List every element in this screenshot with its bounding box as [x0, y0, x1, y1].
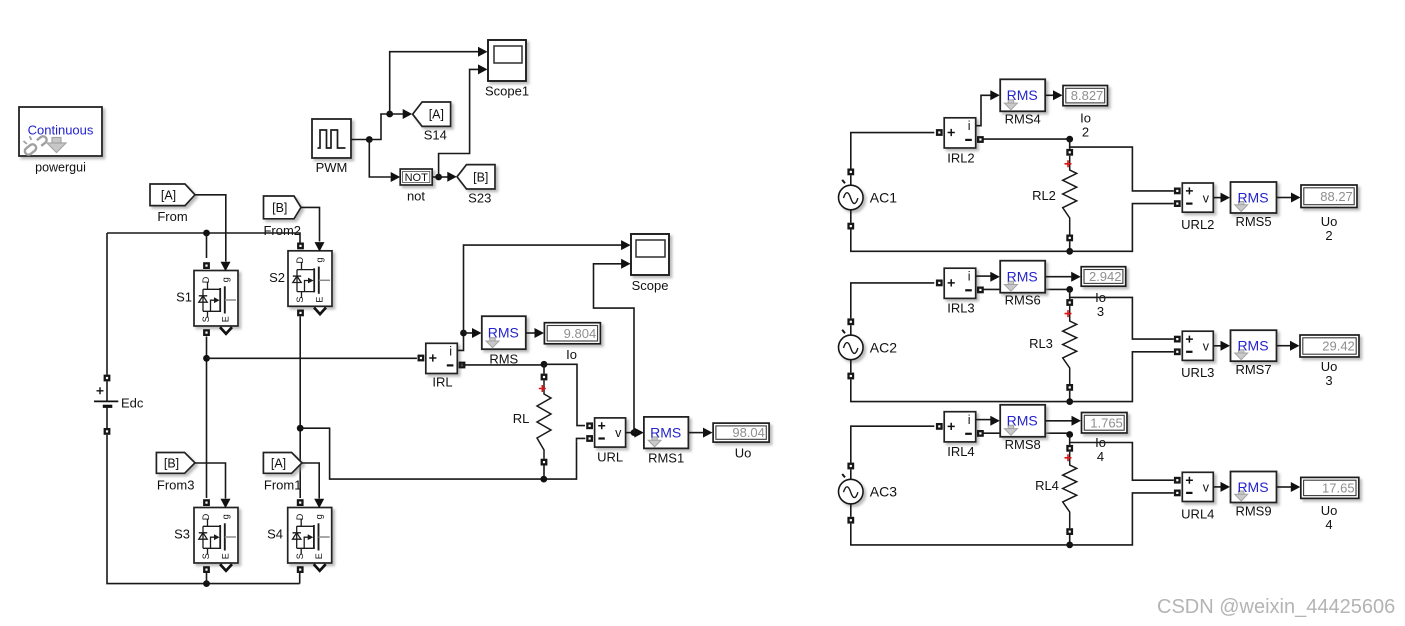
wire RMS output	[526, 332, 535, 334]
arrowhead into RMS	[472, 328, 482, 338]
svg-text:RMS9: RMS9	[1235, 504, 1271, 519]
wire RMS8 output	[1046, 420, 1072, 422]
arrowhead Scope1 input 2	[478, 64, 488, 74]
AC source AC2	[839, 335, 864, 360]
wire RL3 bottom stub	[1069, 391, 1071, 402]
svg-text:RMS6: RMS6	[1005, 293, 1041, 308]
wire AC1 top to IRL2 input	[851, 133, 935, 169]
svg-text:8.827: 8.827	[1071, 88, 1104, 103]
wire RL2 top to URL2 plus	[1070, 147, 1174, 191]
svg-text:S1: S1	[176, 290, 192, 305]
from tag From	[150, 184, 195, 206]
RMS block RMS9	[1231, 472, 1277, 503]
RMS block RMS1	[644, 417, 689, 449]
current measurement IRL2	[944, 118, 976, 148]
resistor RL2	[1063, 156, 1077, 235]
svg-text:v: v	[615, 426, 622, 440]
svg-text:9.804: 9.804	[564, 326, 597, 341]
display Io value 9.804	[544, 323, 600, 344]
junction RL4 bottom	[1066, 542, 1073, 549]
junction PWM output	[366, 136, 373, 143]
svg-text:IRL4: IRL4	[947, 444, 974, 459]
wire RMS7 output	[1277, 345, 1290, 347]
wire AC1 bottom loop	[851, 230, 1070, 252]
svg-text:Scope1: Scope1	[485, 84, 529, 99]
svg-text:88.27: 88.27	[1320, 189, 1353, 204]
arrowhead into S23	[447, 172, 457, 182]
svg-text:E: E	[220, 553, 230, 559]
pulse generator PWM	[312, 119, 351, 158]
svg-text:RMS: RMS	[1007, 413, 1038, 429]
wire RL4 top to URL4 plus	[1070, 443, 1174, 481]
wire AC3 top to IRL4 input	[851, 426, 935, 462]
RMS block RMS5	[1231, 182, 1277, 213]
svg-text:Continuous: Continuous	[28, 123, 94, 138]
wire junction to goto S14	[369, 114, 403, 140]
wire RMS9 output	[1277, 486, 1291, 488]
wire RL4 bottom to URL4 minus	[1070, 493, 1174, 545]
MOSFET S1	[194, 271, 238, 327]
from tag From2	[264, 196, 302, 219]
svg-text:RMS: RMS	[489, 352, 518, 367]
port Edc bottom	[104, 428, 111, 435]
arrowhead into RMS5	[1221, 193, 1231, 203]
scope Scope	[631, 234, 669, 275]
svg-text:2.942: 2.942	[1089, 269, 1122, 284]
RMS block RMS8	[1000, 405, 1045, 437]
wire IRL i output	[457, 333, 463, 350]
RMS block RMS	[482, 316, 526, 349]
wire URL junction to Scope input 2	[594, 264, 635, 433]
wire junction to Scope1 input 2	[439, 69, 479, 177]
svg-text:17.65: 17.65	[1322, 481, 1355, 496]
resistor RL4	[1063, 452, 1077, 529]
wire midpoint A to IRL input	[207, 357, 417, 359]
display Uo value 98.04	[713, 423, 769, 442]
wire junction into RMS1	[634, 432, 635, 434]
RMS block RMS6	[1000, 261, 1045, 293]
wire junction to goto S23	[439, 176, 448, 178]
current measurement IRL3	[944, 268, 976, 298]
wire junction to Scope1 input 1	[390, 52, 479, 114]
arrowhead into display Uo 2	[1291, 193, 1301, 203]
arrowhead into NOT	[391, 172, 401, 182]
wire IRL3 i output to RMS6	[976, 275, 991, 277]
wire From2 to S2 gate	[301, 207, 320, 241]
wire URL4 output	[1214, 486, 1221, 488]
wire RL3 bottom to URL3 minus	[1070, 352, 1174, 402]
svg-text:S3: S3	[174, 527, 190, 542]
svg-text:NOT: NOT	[405, 172, 429, 184]
RMS block RMS4	[1000, 79, 1045, 111]
svg-text:RL: RL	[513, 411, 530, 426]
svg-text:v: v	[1203, 481, 1210, 495]
junction RL2 top	[1066, 136, 1073, 143]
wire bus down to S1 drain	[206, 233, 208, 258]
display Io value 2.942	[1081, 267, 1126, 287]
arrowhead into RMS1	[634, 428, 644, 438]
goto tag S23	[457, 165, 495, 189]
wire S1 source rail to S3 drain	[206, 337, 208, 499]
svg-text:[B]: [B]	[164, 456, 179, 470]
svg-text:E: E	[314, 297, 324, 303]
junction IRL i	[460, 330, 467, 337]
voltage measurement URL3	[1182, 331, 1213, 360]
svg-text:E: E	[314, 553, 324, 559]
svg-text:RL2: RL2	[1032, 188, 1056, 203]
AC source AC3	[839, 479, 864, 504]
svg-text:S: S	[295, 297, 305, 303]
wire URL3 output	[1214, 345, 1221, 347]
goto tag S14	[413, 102, 451, 126]
arrowhead into RMS9	[1221, 482, 1231, 492]
arrowhead into display Io	[535, 328, 545, 338]
wire AC2 bottom loop	[851, 379, 1070, 401]
voltage measurement URL	[595, 418, 626, 447]
svg-text:RMS5: RMS5	[1235, 214, 1271, 229]
scope Scope1	[488, 40, 526, 81]
logical operator NOT	[400, 169, 432, 185]
svg-text:3: 3	[1325, 373, 1332, 388]
arrowhead into display Io 3	[1071, 272, 1081, 282]
svg-text:S4: S4	[267, 527, 283, 542]
svg-text:i: i	[968, 119, 971, 133]
svg-text:IRL3: IRL3	[947, 301, 974, 316]
wire RL2 bottom stub	[1069, 241, 1071, 251]
wire RL4 bottom stub	[1069, 535, 1071, 545]
arrowhead into RMS8	[990, 416, 1000, 426]
svg-text:Uo: Uo	[735, 446, 752, 461]
resistor RL3	[1063, 306, 1077, 384]
wire midpoint B to load loop	[300, 428, 576, 479]
svg-text:RMS: RMS	[1007, 269, 1038, 285]
wire IRL4 i output to RMS8	[976, 419, 991, 421]
arrowhead into display Uo 4	[1291, 482, 1301, 492]
wire IRL minus to RL top	[461, 364, 544, 366]
wire IRL3 minus to RL3	[983, 288, 1069, 290]
display Uo value 17.65	[1301, 477, 1359, 498]
svg-text:RMS: RMS	[1237, 479, 1268, 495]
svg-text:URL: URL	[597, 450, 623, 465]
resistor RL	[537, 380, 551, 458]
svg-text:IRL2: IRL2	[947, 150, 974, 165]
display Uo value 88.27	[1301, 185, 1357, 208]
svg-text:g: g	[314, 257, 324, 262]
arrowhead Scope input 2	[621, 259, 631, 269]
svg-text:g: g	[314, 514, 324, 519]
svg-text:S23: S23	[468, 191, 491, 206]
svg-text:RMS: RMS	[1237, 338, 1268, 354]
arrowhead into display Uo	[703, 428, 713, 438]
wire From1 to S4 gate	[302, 463, 319, 499]
wire RMS1 output	[688, 432, 703, 434]
svg-text:URL2: URL2	[1181, 217, 1214, 232]
svg-text:S2: S2	[269, 270, 285, 285]
svg-text:D: D	[201, 276, 211, 283]
svg-text:[A]: [A]	[429, 108, 444, 122]
wire RMS4 output	[1046, 94, 1054, 96]
svg-text:powergui: powergui	[35, 161, 86, 175]
svg-text:RMS: RMS	[1237, 189, 1268, 205]
svg-text:RL4: RL4	[1035, 478, 1059, 493]
port Edc top	[104, 375, 111, 382]
current measurement IRL4	[944, 412, 976, 442]
display Io value 8.827	[1063, 86, 1108, 106]
wire AC2 top to IRL3 input	[851, 283, 935, 319]
arrowhead into display Uo 3	[1290, 341, 1300, 351]
junction NOT output	[435, 174, 442, 181]
arrowhead into RMS4	[990, 90, 1000, 100]
junction RL3 top	[1066, 286, 1073, 293]
arrowhead Scope1 input 1	[478, 47, 488, 57]
wire RL bottom to loop	[543, 466, 545, 480]
wire URL2 output	[1214, 197, 1221, 199]
wire PWM junction down to NOT	[369, 140, 391, 178]
svg-text:not: not	[407, 189, 425, 204]
junction RL4 top	[1066, 431, 1073, 438]
junction midpoint A	[203, 355, 210, 362]
wire RL2 top stub	[1069, 139, 1071, 149]
arrowhead into RMS6	[990, 272, 1000, 282]
svg-text:29.42: 29.42	[1322, 339, 1355, 354]
svg-text:CSDN @weixin_44425606: CSDN @weixin_44425606	[1157, 596, 1395, 618]
svg-text:4: 4	[1325, 517, 1332, 532]
svg-text:4: 4	[1097, 449, 1104, 464]
wire S3 source stub	[206, 572, 208, 584]
svg-text:RMS8: RMS8	[1005, 437, 1041, 452]
wire load loop to URL minus	[577, 438, 586, 441]
wire RMS6 output	[1046, 276, 1072, 278]
MOSFET S4	[288, 508, 332, 564]
junction RL2 bottom	[1066, 248, 1073, 255]
from tag From1	[263, 453, 302, 474]
MOSFET S3	[194, 508, 238, 564]
display Uo value 29.42	[1300, 335, 1359, 357]
svg-text:RMS4: RMS4	[1005, 111, 1041, 126]
junction top bus S1 branch	[203, 230, 210, 237]
voltage measurement URL4	[1182, 472, 1213, 501]
junction RL3 bottom	[1066, 398, 1073, 405]
junction S14 branch	[386, 111, 393, 118]
svg-text:2: 2	[1325, 228, 1332, 243]
wire RL junction to URL plus	[544, 364, 585, 425]
wire From3 to S3 gate	[195, 463, 226, 499]
wire PWM output to junction	[351, 139, 369, 141]
wire NOT output	[432, 176, 438, 178]
wire RMS5 output	[1277, 197, 1291, 199]
svg-text:Uo: Uo	[1321, 503, 1338, 518]
svg-text:S14: S14	[424, 128, 447, 143]
wire RL top junction down	[543, 364, 545, 373]
arrowhead into RMS7	[1221, 341, 1231, 351]
svg-text:D: D	[201, 513, 211, 520]
RMS block RMS7	[1231, 330, 1277, 361]
wire S4 source to bottom rail	[299, 572, 301, 584]
svg-text:RMS7: RMS7	[1235, 362, 1271, 377]
svg-text:From3: From3	[157, 478, 195, 493]
wire URL output	[626, 432, 634, 434]
svg-text:[B]: [B]	[473, 170, 488, 184]
wire IRL4 minus to RL4	[983, 432, 1069, 434]
svg-text:URL4: URL4	[1181, 506, 1214, 521]
svg-text:AC2: AC2	[870, 339, 897, 355]
svg-text:Uo: Uo	[1321, 359, 1338, 374]
svg-text:RMS: RMS	[488, 325, 519, 341]
svg-text:Scope: Scope	[632, 278, 669, 293]
current measurement IRL	[426, 343, 458, 373]
svg-text:i: i	[449, 345, 452, 359]
svg-text:IRL: IRL	[432, 375, 452, 390]
svg-text:S: S	[201, 553, 211, 559]
display Io value 1.765	[1082, 413, 1128, 434]
svg-text:Uo: Uo	[1321, 214, 1338, 229]
svg-text:[A]: [A]	[271, 456, 286, 470]
svg-text:URL3: URL3	[1181, 365, 1214, 380]
junction RL top	[541, 361, 548, 368]
svg-text:From2: From2	[263, 223, 301, 238]
svg-text:From1: From1	[264, 478, 302, 493]
svg-text:i: i	[968, 270, 971, 284]
svg-text:i: i	[968, 413, 971, 427]
junction URL output	[631, 429, 638, 436]
svg-text:1.765: 1.765	[1090, 415, 1123, 430]
wire RL3 top to URL3 plus	[1070, 297, 1174, 339]
wire S2 source rail to S4 drain	[299, 316, 301, 498]
svg-text:PWM: PWM	[316, 160, 348, 175]
junction midpoint B	[297, 425, 304, 432]
arrowhead into display Io 4	[1072, 416, 1082, 426]
svg-text:g: g	[220, 277, 230, 282]
junction RL bottom	[540, 476, 547, 483]
wire RL2 bottom to URL2 minus	[1070, 204, 1174, 252]
wire IRL2 i output to RMS4	[976, 95, 991, 125]
svg-text:g: g	[220, 514, 230, 519]
arrowhead into display Io 2	[1053, 90, 1063, 100]
svg-text:3: 3	[1097, 304, 1104, 319]
svg-text:2: 2	[1082, 125, 1089, 140]
svg-text:From: From	[157, 209, 187, 224]
powergui block	[19, 107, 102, 156]
wire RL4 top stub	[1069, 435, 1071, 445]
wire Edc bottom rail	[107, 435, 300, 584]
MOSFET S2	[288, 251, 332, 306]
svg-text:RMS1: RMS1	[648, 451, 684, 466]
svg-text:v: v	[1203, 340, 1210, 354]
junction bottom rail S3	[203, 580, 210, 587]
svg-text:RMS: RMS	[650, 424, 681, 440]
from tag From3	[156, 453, 195, 474]
wire left rail Edc top	[106, 233, 108, 375]
wire IRL2 minus to RL2	[983, 138, 1069, 140]
svg-text:S: S	[295, 553, 305, 559]
wire RL3 top stub	[1069, 289, 1071, 299]
svg-text:AC1: AC1	[870, 190, 897, 206]
svg-text:[A]: [A]	[161, 188, 176, 202]
svg-text:Edc: Edc	[121, 396, 144, 411]
wire AC3 bottom loop	[851, 524, 1070, 545]
arrowhead Scope input 1	[621, 240, 631, 250]
svg-text:S: S	[201, 316, 211, 322]
wire From to S1 gate	[195, 195, 226, 262]
svg-text:Io: Io	[566, 347, 577, 362]
svg-text:AC3: AC3	[870, 484, 897, 500]
svg-text:D: D	[295, 513, 305, 520]
wire junction into RMS	[464, 332, 473, 334]
wire junction to Scope input 1	[464, 245, 622, 333]
svg-text:RL3: RL3	[1029, 336, 1053, 351]
voltage measurement URL2	[1182, 183, 1213, 212]
arrowhead into S14	[403, 109, 413, 119]
svg-text:Io: Io	[1080, 111, 1091, 126]
svg-text:D: D	[295, 257, 305, 264]
svg-text:98.04: 98.04	[732, 425, 765, 440]
svg-text:[B]: [B]	[272, 201, 287, 215]
svg-text:RMS: RMS	[1007, 87, 1038, 103]
wire top bus from Edc to S2 drain	[107, 233, 300, 243]
AC source AC1	[839, 185, 864, 210]
svg-text:v: v	[1203, 191, 1210, 205]
svg-text:E: E	[220, 316, 230, 322]
